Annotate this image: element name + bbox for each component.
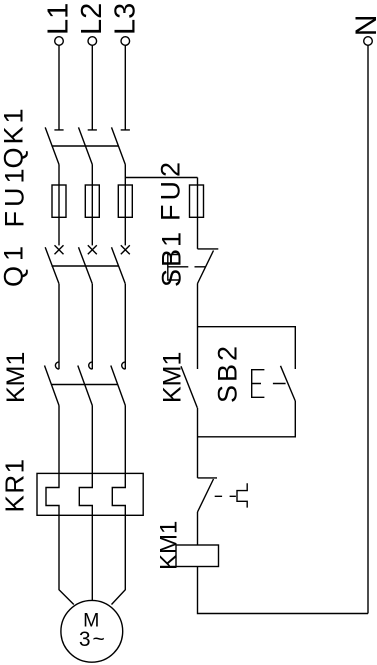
motor M 3~ bbox=[61, 600, 123, 662]
svg-text:SB1: SB1 bbox=[157, 230, 187, 287]
breaker Q1 pole 1 bbox=[45, 245, 63, 283]
wire bbox=[91, 45, 93, 129]
label FU1 bbox=[0, 164, 30, 227]
thermal overload KR1 trip contact (NC) bbox=[198, 478, 248, 512]
terminal N bbox=[364, 37, 373, 46]
svg-text:KM1: KM1 bbox=[2, 352, 30, 403]
svg-text:FU1: FU1 bbox=[0, 164, 30, 227]
switch QK1 pole 3 bbox=[112, 127, 130, 164]
wire bbox=[124, 406, 126, 474]
wire bbox=[124, 45, 126, 129]
contactor KM1 main contact pole 2 bbox=[78, 362, 93, 406]
node L3 bbox=[109, 3, 141, 35]
svg-text:KM1: KM1 bbox=[156, 521, 183, 570]
label SB1 bbox=[157, 230, 187, 287]
label KR1 bbox=[0, 457, 30, 512]
label KM1 (main contacts) bbox=[2, 352, 30, 403]
wire seal-in branch bottom bbox=[198, 401, 296, 437]
node N label bbox=[350, 15, 377, 37]
fuse FU1 pole 1 bbox=[52, 185, 66, 217]
motor lead L1 bbox=[59, 515, 74, 605]
breaker Q1 pole 2 bbox=[79, 245, 97, 283]
QK1 operating linkage bbox=[52, 145, 119, 147]
wire bbox=[58, 284, 60, 369]
svg-text:QK1: QK1 bbox=[0, 105, 29, 168]
wire bbox=[197, 512, 199, 545]
svg-text:SB2: SB2 bbox=[213, 343, 243, 403]
contactor coil KM1 bbox=[176, 545, 219, 567]
fuse FU1 pole 3 bbox=[118, 185, 132, 217]
svg-text:Q1: Q1 bbox=[0, 241, 29, 287]
wire bbox=[124, 284, 126, 369]
wire bbox=[58, 165, 60, 246]
svg-text:KR1: KR1 bbox=[0, 457, 30, 512]
switch QK1 pole 2 bbox=[79, 127, 97, 164]
pushbutton SB1 (NC stop) bbox=[168, 249, 219, 284]
thermal overload relay KR1 box bbox=[37, 473, 143, 515]
terminal L3 bbox=[121, 37, 130, 46]
wire bbox=[124, 165, 126, 246]
svg-text:N: N bbox=[350, 15, 377, 37]
wire bbox=[58, 45, 60, 129]
svg-text:3~: 3~ bbox=[79, 628, 107, 651]
thermal overload KR1 heater pole 3 bbox=[112, 473, 125, 515]
label KM1 (aux contact) bbox=[159, 352, 187, 403]
wire bbox=[197, 408, 199, 478]
KM1 operating linkage bbox=[52, 384, 119, 386]
wire bbox=[91, 406, 93, 474]
svg-text:FU2: FU2 bbox=[156, 158, 186, 221]
thermal overload KR1 heater pole 2 bbox=[79, 473, 92, 515]
node L2 bbox=[76, 3, 108, 35]
wire neutral rail bbox=[367, 45, 369, 613]
node L1 bbox=[43, 3, 75, 35]
contactor KM1 main contact pole 1 bbox=[45, 362, 60, 406]
Q1 operating linkage bbox=[52, 265, 119, 267]
wire bbox=[91, 165, 93, 246]
terminal L2 bbox=[88, 37, 97, 46]
switch QK1 pole 1 bbox=[45, 127, 63, 164]
fuse FU1 pole 2 bbox=[85, 185, 99, 217]
wire seal-in branch top bbox=[198, 327, 296, 369]
svg-text:L2: L2 bbox=[76, 3, 108, 35]
svg-text:L1: L1 bbox=[43, 3, 75, 35]
wire coil to neutral bbox=[198, 567, 369, 614]
contactor KM1 auxiliary contact (NO) bbox=[181, 366, 197, 408]
pushbutton SB2 (NO start) bbox=[252, 366, 296, 401]
wire control tap bbox=[125, 177, 197, 179]
label FU2 bbox=[156, 158, 186, 221]
thermal overload KR1 heater pole 1 bbox=[46, 473, 59, 515]
svg-text:L3: L3 bbox=[109, 3, 141, 35]
motor lead L3 bbox=[112, 515, 126, 605]
wire bbox=[91, 284, 93, 369]
contactor KM1 main contact pole 3 bbox=[111, 362, 126, 406]
wire bbox=[197, 178, 199, 249]
label SB2 bbox=[213, 343, 243, 403]
motor lead L2 bbox=[91, 515, 93, 600]
fuse FU2 bbox=[190, 185, 204, 217]
label QK1 bbox=[0, 105, 29, 168]
wire bbox=[197, 284, 199, 370]
breaker Q1 pole 3 bbox=[112, 245, 130, 283]
label Q1 bbox=[0, 241, 29, 287]
wire bbox=[58, 406, 60, 474]
svg-text:KM1: KM1 bbox=[159, 352, 187, 403]
label KM1 (coil) bbox=[156, 521, 183, 570]
terminal L1 bbox=[55, 37, 64, 46]
